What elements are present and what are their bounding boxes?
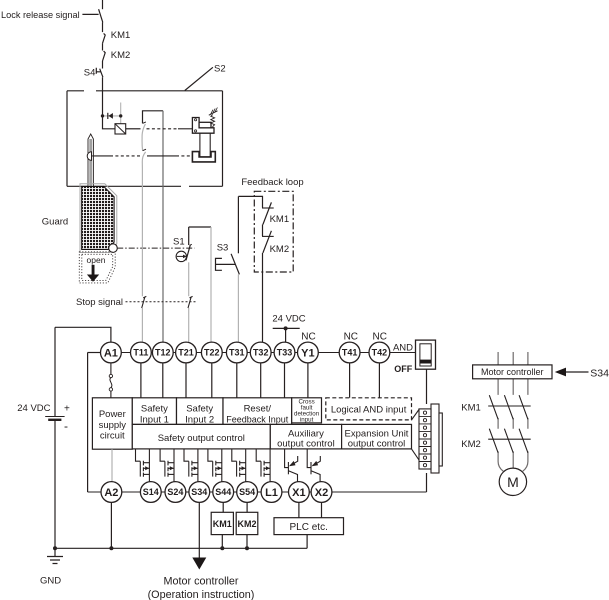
svg-text:KM2: KM2	[111, 50, 131, 61]
svg-text:S34: S34	[191, 487, 207, 497]
svg-text:KM1: KM1	[270, 214, 290, 225]
svg-text:KM1: KM1	[461, 403, 481, 414]
svg-text:output control: output control	[277, 438, 335, 449]
svg-text:NC: NC	[344, 331, 358, 342]
svg-text:Safety: Safety	[186, 404, 213, 415]
svg-text:circuit: circuit	[100, 431, 125, 442]
svg-text:KM1: KM1	[213, 519, 232, 529]
svg-text:M: M	[507, 474, 519, 490]
svg-text:Motor controller: Motor controller	[163, 576, 238, 588]
svg-text:S1: S1	[173, 236, 185, 247]
svg-text:KM2: KM2	[237, 519, 256, 529]
svg-text:S3: S3	[217, 242, 229, 253]
svg-text:input: input	[300, 417, 314, 424]
svg-text:Stop signal: Stop signal	[76, 297, 123, 308]
svg-text:Feedback loop: Feedback loop	[241, 177, 303, 188]
svg-text:Feedback Input: Feedback Input	[226, 415, 289, 425]
svg-text:T12: T12	[155, 348, 171, 358]
svg-text:KM2: KM2	[270, 244, 290, 255]
svg-text:Input 2: Input 2	[185, 415, 214, 426]
svg-text:L1: L1	[265, 487, 278, 499]
svg-text:KM2: KM2	[461, 439, 481, 450]
svg-text:open: open	[87, 255, 106, 265]
svg-text:Y1: Y1	[301, 348, 314, 360]
svg-text:T11: T11	[133, 348, 148, 358]
svg-text:+: +	[64, 404, 70, 415]
svg-text:Guard: Guard	[42, 216, 68, 227]
svg-text:24 VDC: 24 VDC	[272, 313, 305, 324]
svg-text:S4: S4	[84, 68, 96, 79]
svg-text:Input 1: Input 1	[140, 415, 169, 426]
svg-text:S44: S44	[215, 487, 231, 497]
svg-text:S14: S14	[143, 487, 159, 497]
svg-text:T41: T41	[342, 348, 358, 358]
svg-text:T42: T42	[372, 348, 388, 358]
svg-text:NC: NC	[372, 331, 386, 342]
svg-text:AND: AND	[393, 343, 413, 354]
svg-text:24 VDC: 24 VDC	[17, 403, 50, 414]
svg-text:KM1: KM1	[111, 30, 131, 41]
svg-text:output control: output control	[348, 438, 406, 449]
svg-text:-: -	[64, 419, 68, 433]
svg-text:S34: S34	[590, 368, 609, 380]
svg-text:T31: T31	[229, 348, 245, 358]
svg-text:Safety: Safety	[141, 404, 168, 415]
svg-text:supply: supply	[99, 420, 127, 431]
svg-text:Safety output control: Safety output control	[158, 433, 245, 444]
svg-text:X2: X2	[315, 487, 328, 499]
svg-text:T33: T33	[277, 348, 293, 358]
svg-text:OFF: OFF	[394, 364, 412, 374]
svg-text:Power: Power	[99, 409, 126, 420]
svg-text:(Operation instruction): (Operation instruction)	[148, 589, 255, 600]
svg-text:PLC etc.: PLC etc.	[290, 522, 328, 533]
svg-text:Reset/: Reset/	[244, 404, 272, 415]
svg-text:T32: T32	[253, 348, 269, 358]
svg-text:NC: NC	[301, 331, 315, 342]
svg-text:T22: T22	[204, 348, 220, 358]
svg-text:Lock release signal: Lock release signal	[1, 10, 80, 20]
svg-text:S24: S24	[167, 487, 183, 497]
svg-text:GND: GND	[40, 575, 61, 586]
svg-text:T21: T21	[178, 348, 194, 358]
svg-text:S2: S2	[214, 64, 226, 75]
svg-text:A2: A2	[104, 487, 118, 499]
svg-text:Logical AND input: Logical AND input	[331, 404, 407, 415]
svg-text:A1: A1	[104, 348, 118, 360]
svg-text:Motor controller: Motor controller	[481, 367, 544, 377]
svg-text:X1: X1	[292, 487, 305, 499]
svg-text:S54: S54	[239, 487, 255, 497]
